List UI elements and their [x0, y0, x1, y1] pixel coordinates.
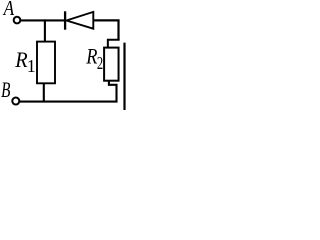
- svg-text:B: B: [1, 77, 10, 102]
- stray vertical line right edge: [123, 43, 125, 110]
- wire R1 bottom stub: [43, 83, 45, 102]
- wire R1 top stub: [44, 19, 46, 42]
- wire R2 bottom stub, jog right, rail down and bottom wire to B: [20, 80, 117, 102]
- resistor R1 body: [37, 42, 55, 84]
- wire jog left into R2 top stub: [108, 40, 120, 49]
- svg-text:2: 2: [97, 53, 103, 73]
- terminal A circle: [14, 17, 21, 24]
- resistor R2 body: [104, 48, 118, 81]
- svg-text:A: A: [2, 0, 14, 20]
- terminal B circle: [12, 98, 19, 105]
- diode D1 triangle: [66, 12, 93, 29]
- diode D1 cathode bar: [64, 11, 66, 29]
- wire top horizontal from A to diode cathode: [21, 19, 66, 21]
- wire top-right: diode to corner, right rail down, jog left, stub to R2 top: [93, 20, 119, 40]
- svg-text:1: 1: [27, 56, 36, 76]
